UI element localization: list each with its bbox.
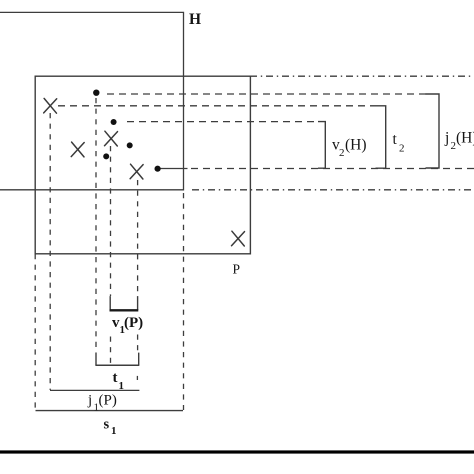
svg-text:(P): (P) [99, 393, 117, 409]
svg-text:2: 2 [399, 143, 405, 155]
svg-text:H: H [189, 11, 201, 28]
svg-text:1: 1 [119, 380, 125, 392]
svg-text:j: j [87, 393, 92, 409]
svg-text:(P): (P) [124, 315, 143, 331]
svg-text:s: s [104, 417, 110, 433]
svg-text:t: t [393, 131, 398, 148]
svg-text:t: t [113, 370, 118, 386]
svg-text:(H): (H) [345, 137, 367, 154]
svg-text:P: P [233, 262, 241, 277]
svg-text:(H): (H) [456, 130, 474, 147]
svg-text:2: 2 [339, 147, 345, 159]
svg-text:j: j [444, 130, 449, 147]
svg-text:1: 1 [111, 425, 117, 437]
